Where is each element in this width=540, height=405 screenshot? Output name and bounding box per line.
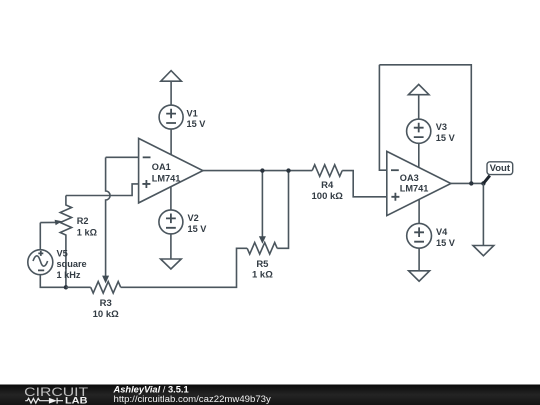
junction dot R5 right — [286, 168, 290, 172]
wire OA3 inverting input to feedback box — [379, 65, 386, 170]
Vout label flag — [487, 162, 513, 175]
wire R4 to OA3 + — [342, 171, 387, 197]
junction dot R5 wiper — [260, 168, 264, 172]
svg-text:R4: R4 — [321, 180, 334, 191]
svg-text:R3: R3 — [100, 298, 112, 309]
ground below Vout node — [473, 246, 494, 256]
wire OA1 inverting input — [106, 156, 139, 158]
svg-text:15 V: 15 V — [436, 238, 456, 248]
svg-text:LM741: LM741 — [152, 174, 181, 184]
voltage source V4 — [407, 223, 456, 248]
wire OA1 non-inverting input — [66, 184, 139, 196]
power flag (up ground) above V3 — [408, 84, 429, 94]
R3 wiper arrowhead — [102, 276, 109, 284]
voltage source V2 — [159, 210, 207, 234]
svg-text:R5: R5 — [256, 259, 269, 270]
op-amp OA1 — [139, 138, 203, 203]
ground below V4 — [409, 271, 430, 281]
svg-text:OA1: OA1 — [152, 162, 171, 172]
wire V2 bottom — [170, 234, 172, 259]
wire V3 to OA3 — [418, 143, 420, 167]
wire feedback vertical with hop — [106, 157, 111, 276]
svg-text:15 V: 15 V — [436, 133, 456, 143]
svg-text:100 kΩ: 100 kΩ — [312, 191, 344, 202]
wire OA1 to V2 — [170, 187, 172, 210]
wire R5 right to output net — [277, 171, 288, 249]
svg-text:V1: V1 — [187, 108, 198, 118]
wire V3 top — [418, 95, 420, 119]
R5 wiper arrowhead — [259, 236, 266, 244]
svg-text:15 V: 15 V — [187, 119, 207, 129]
logo resistor zigzag — [25, 398, 49, 403]
junction dot output — [481, 181, 485, 185]
power flag (up ground) above V1 — [161, 71, 182, 82]
svg-text:http://circuitlab.com/caz22mw4: http://circuitlab.com/caz22mw49b73y — [114, 394, 272, 405]
voltage source V1 — [159, 105, 206, 129]
svg-text:square: square — [57, 259, 87, 269]
Vout flag connector — [483, 176, 489, 184]
wire OA3 output — [451, 182, 484, 184]
op-amp OA3 — [387, 151, 451, 215]
wire V5 top — [39, 223, 41, 250]
svg-text:1 kHz: 1 kHz — [57, 270, 81, 280]
wire OA1 output — [203, 170, 312, 172]
R2 wiper arrow — [40, 221, 55, 223]
resistor R4 — [312, 165, 344, 202]
svg-text:LM741: LM741 — [400, 184, 429, 194]
voltage source V5 — [28, 249, 87, 280]
wire to R3 — [66, 286, 91, 288]
junction dot R2 bottom — [64, 285, 68, 289]
logo diode — [49, 398, 57, 404]
svg-text:LAB: LAB — [65, 395, 88, 405]
potentiometer R3 — [91, 282, 121, 320]
wire R3 to R5 — [121, 248, 248, 287]
svg-text:1 kΩ: 1 kΩ — [77, 227, 97, 237]
svg-text:1 kΩ: 1 kΩ — [252, 270, 273, 281]
wire V1 top — [170, 81, 172, 105]
wire OA3 to V4 — [418, 200, 420, 224]
wire V1 to OA1 — [170, 129, 172, 155]
svg-text:OA3: OA3 — [400, 173, 419, 183]
svg-text:10 kΩ: 10 kΩ — [93, 309, 119, 320]
junction dot feedback — [469, 181, 473, 185]
R5 wiper wire — [261, 171, 263, 237]
feedback wire box top and right — [379, 65, 471, 184]
svg-text:V2: V2 — [188, 213, 199, 223]
potentiometer R2 — [60, 196, 97, 288]
svg-text:Vout: Vout — [490, 163, 511, 174]
wire output to ground — [482, 183, 484, 245]
ground below V2 — [161, 259, 182, 269]
voltage source V3 — [407, 119, 456, 143]
wire V4 bottom — [418, 248, 420, 271]
svg-text:V5: V5 — [57, 249, 68, 259]
svg-text:V3: V3 — [436, 122, 447, 132]
svg-text:V4: V4 — [436, 227, 448, 237]
svg-text:15 V: 15 V — [188, 224, 208, 234]
potentiometer R5 — [247, 243, 277, 281]
wire V5 bottom — [40, 275, 66, 288]
svg-text:R2: R2 — [77, 216, 89, 226]
